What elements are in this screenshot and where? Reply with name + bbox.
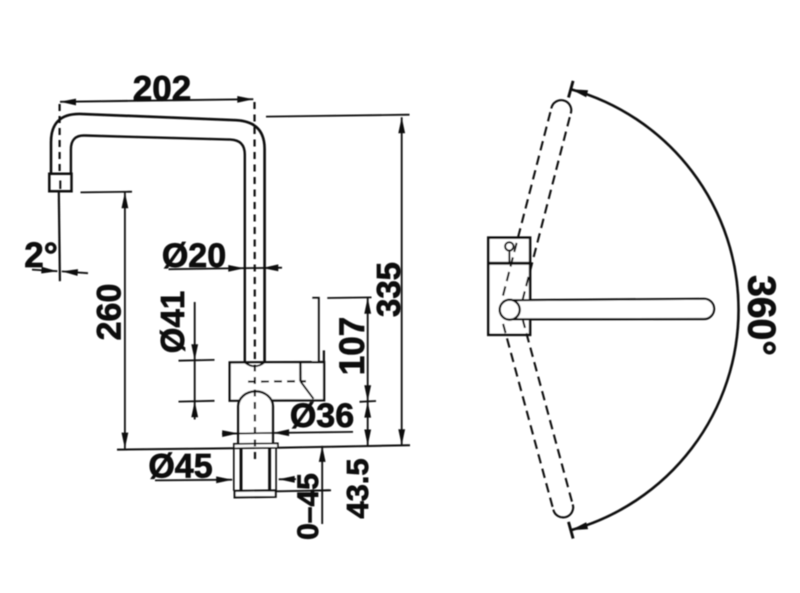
- dashed spout position upper edge 2: [503, 109, 551, 296]
- threaded shank inner left: [240, 448, 243, 491]
- svg-text:202: 202: [133, 70, 191, 109]
- dim 202 text: [133, 70, 191, 109]
- base flange ring: [234, 443, 278, 448]
- water stream reference line (2 deg): [59, 191, 60, 281]
- dim dia45 leader right: [279, 476, 296, 483]
- dim 335 extension line: [266, 115, 410, 117]
- spout right centerline (dashed): [253, 102, 256, 460]
- dashed spout position lower cap: [553, 504, 573, 517]
- dim dia45 leader left: [155, 476, 232, 483]
- svg-text:335: 335: [370, 262, 407, 317]
- faucet spout outer outline: [51, 114, 265, 362]
- svg-text:107: 107: [333, 317, 372, 375]
- top view handle pivot circle: [505, 242, 513, 263]
- dim 0-45 tick: [313, 489, 330, 492]
- aerator centerline dash: [59, 181, 61, 190]
- dim 0-45 text: [292, 473, 325, 540]
- dashed spout position lower edge 2: [523, 319, 573, 505]
- svg-text:260: 260: [90, 284, 128, 341]
- rotation arc 360: [571, 89, 739, 530]
- dim dia41 tick bottom: [179, 400, 215, 403]
- rotation arc bottom tick: [569, 522, 574, 539]
- svg-text:Ø41: Ø41: [154, 291, 191, 353]
- threaded shank outer left: [233, 448, 235, 491]
- dim 43.5 text: [340, 458, 375, 518]
- dim 0-45 extension line: [277, 490, 332, 491]
- dim dia41 text: [154, 291, 191, 353]
- handle rear edge above body: [323, 350, 325, 362]
- neck dome below body: [238, 391, 273, 444]
- dim 335 text: [370, 262, 407, 317]
- handle lever rod: [312, 298, 318, 362]
- svg-text:360°: 360°: [740, 275, 783, 356]
- dim dia36 line: [222, 429, 353, 437]
- handle split line diagonal: [301, 381, 314, 398]
- rotation arc top tick: [569, 81, 574, 98]
- rotation arc top arrowhead: [571, 89, 588, 97]
- svg-text:Ø45: Ø45: [148, 448, 212, 486]
- dim 2deg text: [24, 236, 57, 275]
- spout socket arc on body top: [245, 362, 265, 366]
- dim 260 extension line: [81, 191, 133, 194]
- svg-text:2°: 2°: [24, 236, 57, 275]
- spout left centerline (dashed): [58, 104, 60, 174]
- threaded shank inner right: [268, 448, 271, 491]
- top view spout bar solid: [513, 299, 714, 320]
- dim 202 line: [60, 96, 253, 105]
- svg-text:Ø20: Ø20: [162, 237, 226, 275]
- dim 2deg arrows: [32, 267, 88, 276]
- top view body rectangle: [488, 238, 530, 335]
- top view divider line: [488, 262, 530, 265]
- dim 107 extension line: [327, 296, 371, 299]
- dim 43.5 arrows: [364, 402, 371, 446]
- svg-text:0–45: 0–45: [292, 473, 325, 540]
- body bottom tick at 107: [360, 400, 377, 403]
- shank fixing nut: [235, 490, 276, 497]
- body horizontal centerline (dashed): [248, 380, 306, 382]
- dim 260 line: [122, 192, 129, 448]
- faucet spout inner outline: [71, 135, 245, 362]
- handle split line vertical: [299, 362, 302, 381]
- dim 260 text: [90, 284, 128, 341]
- dim 335 line: [398, 117, 405, 445]
- dim dia20 line: [169, 264, 283, 271]
- aerator at spout tip: [49, 174, 71, 192]
- threaded shank outer right: [275, 448, 277, 491]
- text 360 degrees: [740, 275, 783, 356]
- top view spout pivot circle: [500, 300, 520, 320]
- dim dia36 text: [290, 397, 354, 435]
- mounting surface line: [117, 445, 410, 449]
- svg-text:Ø36: Ø36: [290, 397, 354, 435]
- dashed spout position lower edge 1: [503, 324, 553, 510]
- dim dia41 line: [191, 302, 198, 420]
- dim 107 line: [364, 298, 371, 446]
- dim dia20 text: [162, 237, 226, 275]
- dim dia41 tick top: [179, 359, 215, 362]
- dim 0-45 line: [319, 446, 326, 524]
- dim dia45 text: [148, 448, 212, 486]
- rotation arc bottom arrowhead: [571, 522, 588, 530]
- dashed spout position upper edge 1: [522, 114, 570, 301]
- valve body: [230, 362, 324, 401]
- dim 107 text: [333, 317, 372, 375]
- svg-text:43.5: 43.5: [340, 458, 375, 518]
- dashed spout position upper cap: [551, 100, 571, 113]
